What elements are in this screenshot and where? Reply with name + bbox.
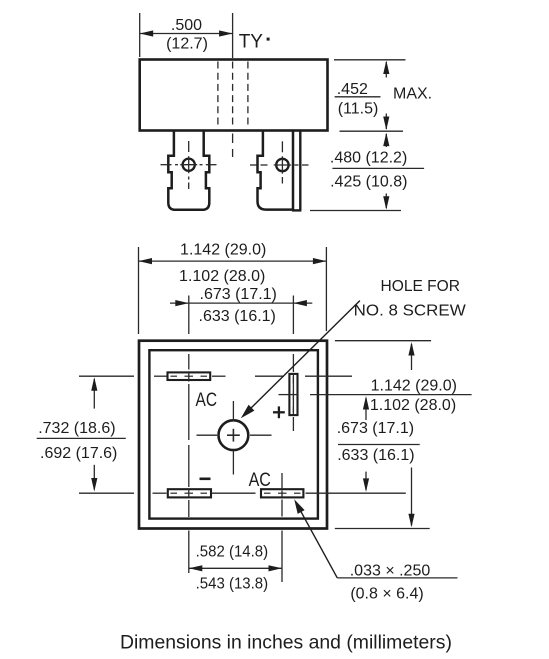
node .673 top dim bbox=[170, 300, 312, 306]
node .673 right arrows bbox=[363, 396, 369, 492]
node top dim ext left bbox=[138, 247, 140, 334]
wire: centerline h394 bbox=[279, 394, 472, 396]
svg-text:.673 (17.1): .673 (17.1) bbox=[337, 420, 414, 437]
wire: ext lead tips bbox=[310, 210, 401, 212]
svg-text:HOLE FOR: HOLE FOR bbox=[381, 278, 461, 295]
svg-text:(12.7): (12.7) bbox=[166, 35, 208, 52]
svg-text:.452: .452 bbox=[337, 81, 368, 98]
wire: centerline v282 bbox=[281, 473, 283, 582]
transistor Q3: rear terminal edge bbox=[292, 132, 301, 211]
node 0.8 label bbox=[350, 585, 423, 602]
svg-text:MAX.: MAX. bbox=[393, 86, 432, 103]
node TYP label bbox=[239, 31, 270, 52]
node .452 dim arrows bbox=[383, 61, 389, 131]
wire: hidden center bbox=[232, 62, 234, 129]
node left terminal hole bbox=[161, 141, 217, 189]
diode mounting hole bbox=[219, 420, 249, 450]
wire: centerline v188 bbox=[188, 296, 190, 574]
svg-text:(0.8 × 6.4): (0.8 × 6.4) bbox=[350, 585, 423, 602]
node .480 label bbox=[330, 149, 424, 190]
svg-text:.732 (18.6): .732 (18.6) bbox=[38, 420, 115, 437]
capacitor outer square bbox=[139, 341, 327, 529]
svg-text:.425 (10.8): .425 (10.8) bbox=[330, 174, 407, 191]
node .673 right label bbox=[337, 420, 420, 464]
wire: center below body bbox=[232, 134, 234, 158]
node 1.142 right label bbox=[371, 378, 457, 395]
svg-text:.480 (12.2): .480 (12.2) bbox=[330, 149, 407, 166]
node AC label bottom bbox=[249, 469, 271, 491]
wire: hidden hole right bbox=[247, 62, 249, 129]
wire: right ext top bbox=[335, 340, 431, 342]
node 1.142 top dim line bbox=[139, 258, 327, 264]
svg-text:.633 (16.1): .633 (16.1) bbox=[337, 447, 414, 464]
node .732 label bbox=[37, 420, 126, 462]
wire: vertical center line bbox=[232, 13, 234, 58]
wire: hidden hole left bbox=[217, 62, 219, 129]
svg-text:1.102 (28.0): 1.102 (28.0) bbox=[370, 397, 456, 414]
node hole leader bbox=[241, 301, 360, 419]
wire: centerline v293 bbox=[292, 296, 294, 432]
node slot size leader bbox=[294, 499, 457, 578]
svg-text:.633 (16.1): .633 (16.1) bbox=[199, 308, 276, 325]
svg-text:.500: .500 bbox=[171, 17, 202, 34]
wire: ext body bottom right bbox=[340, 130, 404, 132]
node .543 label bbox=[196, 576, 269, 593]
node HOLE FOR label bbox=[354, 278, 467, 320]
resistor body outline bbox=[140, 60, 328, 131]
node .732 arrows bbox=[91, 377, 97, 491]
svg-text:NO. 8 SCREW: NO. 8 SCREW bbox=[354, 303, 467, 320]
node top dim ext right bbox=[325, 247, 327, 331]
node .033 label bbox=[350, 562, 431, 579]
wire: right ext bottom bbox=[335, 528, 430, 530]
transistor Q2: right terminal bbox=[258, 131, 294, 209]
svg-text:AC: AC bbox=[249, 469, 271, 491]
svg-text:.033 × .250: .033 × .250 bbox=[350, 562, 431, 579]
node slot right bbox=[289, 374, 297, 415]
node slot bottom-right bbox=[261, 489, 303, 497]
node slot bottom-left bbox=[168, 489, 211, 497]
svg-text:.673 (17.1): .673 (17.1) bbox=[200, 286, 277, 303]
svg-text:1.102 (28.0): 1.102 (28.0) bbox=[179, 268, 265, 285]
node 1.102 top label bbox=[179, 268, 265, 285]
node caption bbox=[120, 632, 452, 654]
node .633 top label bbox=[199, 308, 276, 325]
svg-text:(11.5): (11.5) bbox=[338, 101, 379, 118]
wire: left extension line bbox=[139, 13, 141, 57]
svg-text:AC: AC bbox=[196, 389, 218, 411]
wire: ext top right bbox=[334, 59, 406, 61]
node .582 label bbox=[196, 544, 269, 561]
node 1.142 top label bbox=[180, 241, 266, 258]
node .673 top label bbox=[200, 286, 277, 303]
node minus label bbox=[200, 477, 211, 480]
node 1.102 right label bbox=[370, 397, 456, 414]
wire: centerline h493 bbox=[79, 492, 406, 494]
transistor Q1: left terminal bbox=[168, 131, 209, 210]
node hole cross bbox=[197, 401, 272, 475]
svg-text:Dimensions in inches and (mill: Dimensions in inches and (millimeters) bbox=[120, 632, 452, 654]
wire: centerline h376 bbox=[79, 375, 352, 377]
svg-text:.543 (13.8): .543 (13.8) bbox=[196, 576, 269, 593]
svg-text:1.142 (29.0): 1.142 (29.0) bbox=[371, 378, 457, 395]
node right terminal hole bbox=[250, 141, 309, 183]
node AC label top bbox=[196, 389, 218, 411]
capacitor inner square bbox=[149, 350, 318, 518]
node .480 top arrow bbox=[383, 133, 389, 147]
node slot top-left bbox=[168, 372, 211, 380]
svg-text:TY: TY bbox=[239, 31, 264, 52]
node .500 label bbox=[166, 17, 208, 52]
svg-text:.692 (17.6): .692 (17.6) bbox=[40, 445, 117, 462]
node .480 bottom arrow bbox=[383, 194, 389, 210]
node .452 label bbox=[335, 81, 433, 118]
svg-text:.582 (14.8): .582 (14.8) bbox=[196, 544, 269, 561]
svg-text:1.142 (29.0): 1.142 (29.0) bbox=[180, 241, 266, 258]
node .500 dim line bbox=[140, 30, 233, 36]
node plus label bbox=[273, 406, 285, 418]
node 1.142 right dim bbox=[408, 342, 414, 527]
node .582 dim line bbox=[189, 565, 282, 571]
